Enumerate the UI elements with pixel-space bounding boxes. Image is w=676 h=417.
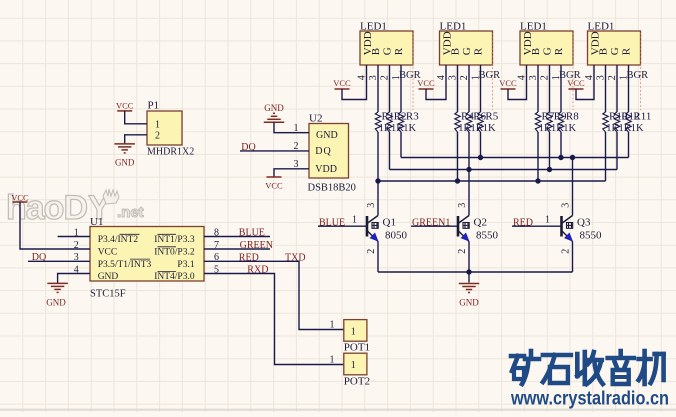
svg-text:1K: 1K (403, 123, 416, 134)
wire LED1 pin to R1 (377, 65, 379, 112)
junction (375, 178, 380, 183)
connector POT1 (344, 320, 367, 342)
wire Q1 emitter (377, 242, 379, 273)
resistor R11 (626, 112, 631, 132)
VCC bar (501, 88, 516, 90)
svg-text:3: 3 (528, 75, 539, 80)
svg-text:2: 2 (155, 131, 160, 142)
ground (U2 pin1) (264, 113, 285, 122)
svg-text:2: 2 (457, 249, 468, 254)
transistor Q2 (8550) (458, 216, 469, 242)
svg-text:BGR: BGR (479, 70, 501, 81)
LED module LED1 (#4) (588, 31, 641, 65)
resistor R8 (558, 112, 563, 132)
VCC bar (569, 88, 584, 90)
svg-text:G: G (461, 47, 473, 55)
wire LED2 pin to R5 (480, 65, 482, 112)
svg-text:LED1: LED1 (360, 20, 387, 32)
wire LED4 pin to R10 (605, 65, 607, 112)
svg-text:3: 3 (366, 203, 377, 208)
Q1 symbol glyph (372, 223, 378, 229)
svg-text:GND: GND (264, 103, 284, 113)
svg-text:P3.4/INT2: P3.4/INT2 (98, 235, 139, 245)
svg-text:1K: 1K (631, 123, 644, 134)
resistor R1 (375, 112, 380, 132)
resistor designators R4/R6/R5 (461, 111, 499, 123)
LED module LED1 (#3) (520, 31, 573, 65)
watermark: crystalradio logo (511, 351, 664, 384)
wire R5 to bus (480, 132, 482, 158)
U1 INT overlines (120, 234, 177, 271)
svg-text:B: B (450, 48, 462, 55)
svg-text:BGR: BGR (627, 70, 649, 81)
IC U2 (DSB18B20) (309, 124, 349, 179)
wire R12 to bus (616, 132, 618, 170)
resistor R7 (535, 112, 540, 132)
svg-text:GND: GND (46, 297, 66, 307)
svg-text:2: 2 (379, 75, 390, 80)
svg-text:P1: P1 (148, 100, 160, 112)
junction (570, 155, 575, 160)
wire LED2 pin to R4 (457, 65, 459, 112)
wire net BLUE to Q1 base (318, 225, 367, 227)
svg-text:LED1: LED1 (520, 20, 547, 32)
svg-text:VCC: VCC (567, 78, 585, 88)
wire U1 pin6 to POT1 (204, 261, 344, 329)
svg-text:VCC: VCC (98, 248, 118, 258)
svg-text:2: 2 (561, 249, 572, 254)
wire VCC to LED1 pin4 (342, 65, 367, 100)
ground (U1) (47, 283, 68, 292)
svg-text:RED: RED (513, 217, 533, 228)
wire R8 to bus (560, 132, 562, 158)
resistor designators R7/R9/R8 (542, 111, 580, 123)
svg-text:R8: R8 (566, 111, 579, 123)
svg-text:4: 4 (584, 75, 595, 80)
svg-text:VCC: VCC (116, 101, 134, 111)
svg-text:INT0/P3.2: INT0/P3.2 (154, 248, 195, 258)
wire R1 to bus (377, 132, 379, 181)
svg-text:Q1: Q1 (383, 217, 396, 229)
wire VCC to U1 pin2 (20, 202, 90, 249)
resistor R5 (478, 112, 483, 132)
resistor R3 (398, 112, 403, 132)
svg-text:Q2: Q2 (474, 217, 487, 229)
VCC bar (419, 88, 434, 90)
svg-text:INT4/P3.0: INT4/P3.0 (154, 272, 195, 282)
svg-text:VCC: VCC (11, 192, 29, 202)
svg-text:VCC: VCC (265, 181, 283, 191)
wire LED4 pin to R11 (628, 65, 630, 112)
resistor R12 (614, 112, 619, 132)
wire net RED to Q3 base (512, 225, 562, 227)
wire U1 pin5 to POT2 (204, 274, 344, 365)
svg-text:BLUE: BLUE (239, 228, 265, 239)
svg-text:8550: 8550 (580, 230, 603, 242)
svg-text:GND: GND (115, 157, 135, 167)
resistor designators R10/R12/R11 (609, 111, 651, 123)
junction (466, 167, 471, 172)
svg-text:1K: 1K (563, 123, 576, 134)
svg-text:POT1: POT1 (344, 342, 370, 354)
svg-text:U2: U2 (309, 113, 322, 125)
wire R11 to bus (628, 132, 630, 158)
svg-text:INT1/P3.3: INT1/P3.3 (154, 235, 195, 245)
svg-text:2: 2 (607, 75, 618, 80)
svg-text:G: G (609, 47, 621, 55)
svg-text:VCC: VCC (333, 78, 351, 88)
svg-text:GND: GND (98, 272, 119, 282)
svg-text:LED1: LED1 (588, 20, 615, 32)
svg-text:B: B (370, 48, 382, 55)
resistor R2 (387, 112, 392, 132)
svg-text:4: 4 (356, 75, 367, 80)
resistor values 1K 1K 1K (group 1) (379, 123, 417, 134)
junction (535, 178, 540, 183)
svg-text:LED1: LED1 (440, 20, 467, 32)
wire DQ to U1 pin3 (28, 260, 90, 262)
svg-text:1: 1 (351, 326, 356, 337)
wire R4 to bus (457, 132, 459, 181)
svg-text:VDD: VDD (315, 164, 337, 175)
VCC bar (335, 88, 350, 90)
wire Q1 collector (377, 181, 379, 216)
wire RED bus (401, 157, 629, 159)
resistor values 1K 1K 1K (group 4) (606, 123, 644, 134)
wire ground to U2 pin1 (274, 122, 309, 132)
wire R6 to bus (468, 132, 470, 170)
svg-text:3: 3 (561, 203, 572, 208)
svg-text:GND: GND (459, 297, 479, 307)
wire GREEN bus (390, 169, 618, 171)
connector POT2 (344, 353, 367, 375)
svg-text:STC15F: STC15F (90, 289, 126, 300)
svg-text:VCC: VCC (499, 78, 517, 88)
wire VCC to LED4 pin4 (576, 65, 594, 100)
svg-text:R11: R11 (633, 111, 651, 123)
wire R2 to bus (389, 132, 391, 170)
svg-text:GND: GND (316, 130, 338, 141)
Q2 symbol glyph (463, 223, 469, 229)
wire Q2 collector (468, 170, 470, 216)
svg-text:.net: .net (117, 204, 144, 221)
svg-text:3: 3 (595, 75, 606, 80)
svg-text:1: 1 (545, 215, 550, 226)
svg-text:RXD: RXD (247, 265, 268, 276)
wire VCC to P1 pin1 (125, 111, 147, 124)
svg-text:GREEN1: GREEN1 (412, 217, 450, 228)
resistor values 1K 1K 1K (group 3) (539, 123, 577, 134)
svg-text:3: 3 (447, 75, 458, 80)
resistor values 1K 1K 1K (group 2) (458, 123, 496, 134)
transistor Q3 (8550) (562, 216, 573, 242)
VCC bar (117, 110, 132, 112)
wire LED1 pin to R2 (389, 65, 391, 112)
svg-text:R: R (553, 47, 565, 55)
resistor R9 (547, 112, 552, 132)
svg-text:1: 1 (330, 354, 335, 365)
wire DQ to U2 pin2 (240, 150, 309, 152)
LED module LED1 (#2) (440, 31, 493, 65)
svg-text:G: G (382, 47, 394, 55)
wire U1 pin4 to ground (58, 274, 90, 283)
svg-text:TXD: TXD (285, 252, 306, 263)
VCC bar (13, 201, 28, 203)
svg-text:www.crystalradio.cn: www.crystalradio.cn (510, 389, 669, 410)
wire LED3 pin to R7 (537, 65, 539, 112)
svg-text:1: 1 (352, 215, 357, 226)
svg-text:RED: RED (239, 252, 259, 263)
svg-text:DQ: DQ (315, 146, 331, 157)
junction (466, 269, 471, 274)
svg-text:4: 4 (436, 75, 447, 80)
LED4 bus entry dotted line (640, 33, 642, 110)
wire U1 pin8 BLUE stub (204, 236, 270, 238)
wire R9 to bus (549, 132, 551, 170)
svg-text:8050: 8050 (385, 230, 408, 242)
LED2 bus entry dotted line (492, 33, 494, 110)
svg-text:POT2: POT2 (344, 375, 370, 387)
resistor R10 (603, 112, 608, 132)
wire R3 to bus (400, 132, 402, 158)
wire R10 to bus (605, 132, 607, 181)
junction (478, 155, 483, 160)
wire P1 pin2 to ground (125, 135, 147, 144)
svg-text:DSB18B20: DSB18B20 (308, 183, 356, 194)
wire Q3 collector (572, 158, 574, 216)
svg-text:B: B (530, 48, 542, 55)
svg-text:BLUE: BLUE (319, 217, 345, 228)
svg-text:R: R (393, 47, 405, 55)
svg-text:MHDR1X2: MHDR1X2 (147, 147, 194, 158)
svg-text:4: 4 (516, 75, 527, 80)
svg-text:R2: R2 (394, 111, 407, 123)
resistor R6 (466, 112, 471, 132)
connector P1 (MHDR1X2) (147, 111, 182, 145)
wire BLUE bus (378, 180, 606, 182)
wire R7 to bus (537, 132, 539, 181)
junction (558, 155, 563, 160)
svg-text:G: G (542, 47, 554, 55)
wire U1 pin7 GREEN stub (204, 248, 270, 250)
wire LED3 pin to R9 (549, 65, 551, 112)
svg-text:B: B (598, 48, 610, 55)
svg-text:1K: 1K (483, 123, 496, 134)
svg-text:8550: 8550 (476, 230, 499, 242)
transistor Q1 (8050) (367, 216, 378, 242)
svg-text:3: 3 (368, 75, 379, 80)
wire VCC to LED2 pin4 (426, 65, 446, 100)
MCU U1 (STC15F) (90, 227, 204, 282)
LED1 bus entry dotted line (412, 33, 414, 110)
VCC bar (267, 176, 282, 178)
svg-text:2: 2 (539, 75, 550, 80)
wire U1 pin1 stub (58, 236, 90, 238)
wire LED2 pin to R6 (468, 65, 470, 112)
resistor R4 (455, 112, 460, 132)
ground (emitter rail) (459, 284, 480, 293)
svg-text:1: 1 (330, 320, 335, 331)
svg-text:U1: U1 (90, 216, 103, 228)
wire Q3 emitter (572, 242, 574, 273)
svg-text:2: 2 (459, 75, 470, 80)
svg-text:GREEN: GREEN (240, 240, 273, 251)
svg-text:2: 2 (366, 249, 377, 254)
wire emitter rail (378, 271, 573, 273)
svg-text:P3.1: P3.1 (177, 260, 194, 270)
wire to ground (468, 272, 470, 283)
ground (P1) (114, 144, 135, 153)
svg-text:R5: R5 (485, 111, 498, 123)
wire Q2 emitter (468, 242, 470, 273)
svg-text:1: 1 (155, 119, 160, 130)
svg-text:1: 1 (351, 360, 356, 371)
svg-text:P3.5/T1/INT3: P3.5/T1/INT3 (98, 260, 152, 270)
svg-text:Q3: Q3 (577, 217, 591, 229)
Q3 symbol glyph (567, 223, 573, 229)
wire LED4 pin to R12 (616, 65, 618, 112)
svg-text:VCC: VCC (417, 78, 435, 88)
wire U2 pin3 to VCC (274, 169, 309, 177)
junction (455, 178, 460, 183)
junction (547, 167, 552, 172)
resistor designators R1/R2/R3 (382, 111, 420, 123)
wire net GREEN1 to Q2 base (411, 225, 458, 227)
svg-text:R1: R1 (382, 111, 395, 123)
wire LED3 pin to R8 (560, 65, 562, 112)
LED module LED1 (#1) (360, 31, 413, 65)
svg-text:R: R (473, 47, 485, 55)
svg-text:R: R (621, 47, 633, 55)
wire LED1 pin to R3 (400, 65, 402, 112)
svg-text:3: 3 (457, 203, 468, 208)
LED3 bus entry dotted line (572, 33, 574, 110)
svg-text:R3: R3 (406, 111, 419, 123)
wire VCC to LED3 pin4 (508, 65, 527, 100)
